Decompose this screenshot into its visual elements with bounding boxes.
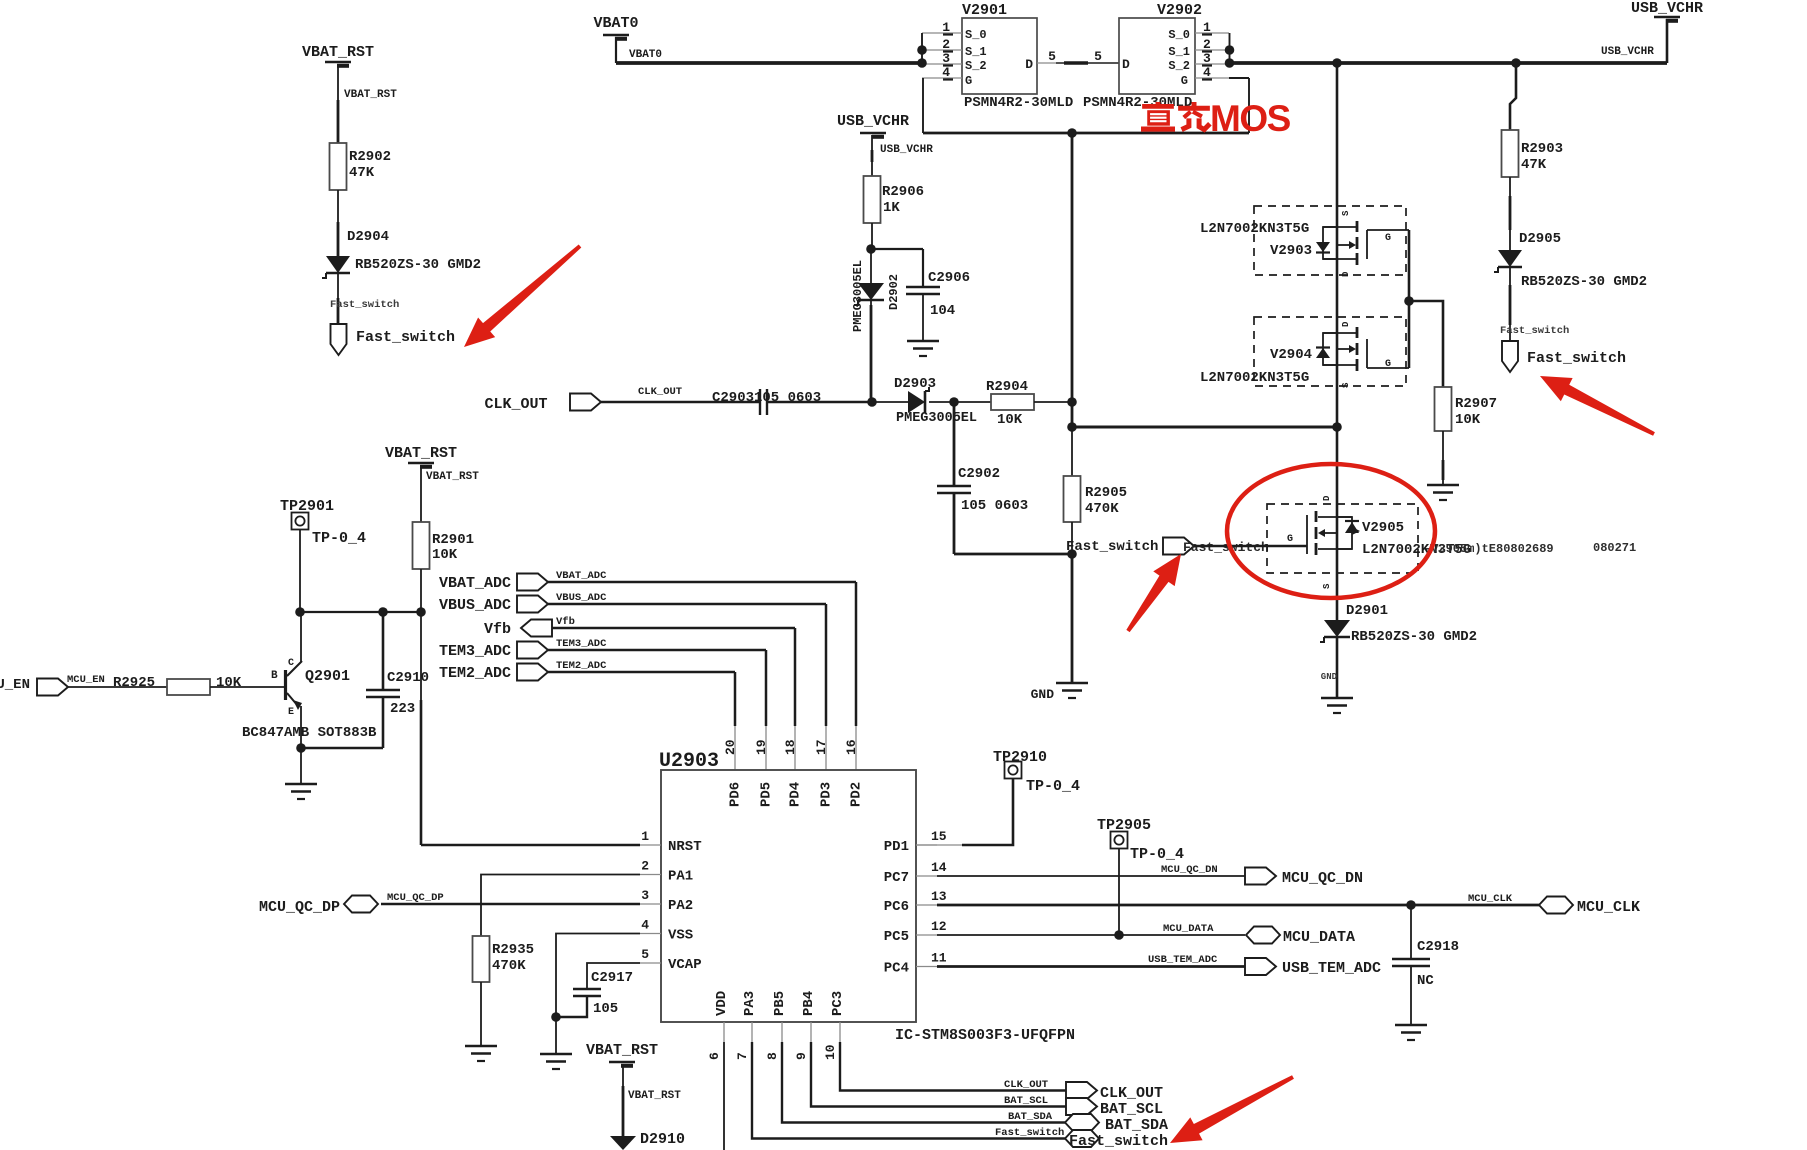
- svg-text:G: G: [1385, 359, 1391, 370]
- svg-text:R2901: R2901: [432, 532, 474, 548]
- svg-text:470K: 470K: [492, 958, 526, 974]
- svg-text:D2902: D2902: [887, 274, 901, 310]
- svg-text:PSMN4R2-30MLD: PSMN4R2-30MLD: [1083, 95, 1192, 111]
- svg-text:D: D: [1341, 271, 1351, 277]
- svg-text:Fast_switch: Fast_switch: [356, 329, 455, 346]
- svg-text:C2903: C2903: [712, 390, 754, 406]
- svg-text:PB5: PB5: [772, 991, 788, 1016]
- svg-text:MCU_DATA: MCU_DATA: [1163, 923, 1214, 935]
- svg-text:CLK_OUT: CLK_OUT: [1004, 1079, 1048, 1091]
- svg-text:MCU_EN: MCU_EN: [67, 674, 105, 686]
- svg-text:VDD: VDD: [714, 991, 730, 1016]
- svg-text:PD6: PD6: [728, 782, 744, 807]
- svg-text:CLK_OUT: CLK_OUT: [1100, 1085, 1163, 1102]
- svg-text:PD2: PD2: [849, 782, 865, 807]
- svg-text:MCU_QC_DP: MCU_QC_DP: [387, 892, 444, 904]
- svg-text:USB_VCHR: USB_VCHR: [1631, 0, 1703, 17]
- svg-text:19: 19: [754, 739, 769, 755]
- svg-text:G: G: [1181, 74, 1188, 88]
- svg-text:4: 4: [1203, 65, 1211, 80]
- svg-text:R2902: R2902: [349, 149, 391, 165]
- svg-text:PMEG3005EL: PMEG3005EL: [851, 260, 865, 332]
- svg-text:CLK_OUT: CLK_OUT: [638, 386, 682, 398]
- svg-text:S_2: S_2: [1168, 59, 1190, 73]
- svg-text:BAT_SDA: BAT_SDA: [1008, 1111, 1053, 1123]
- svg-text:PMEG3005EL: PMEG3005EL: [896, 411, 977, 426]
- svg-text:10K: 10K: [432, 547, 458, 563]
- svg-text:20: 20: [723, 739, 738, 755]
- svg-text:PA3: PA3: [742, 991, 758, 1016]
- svg-text:MCU_CLK: MCU_CLK: [1577, 899, 1640, 916]
- svg-text:Q2901: Q2901: [305, 668, 350, 685]
- svg-text:G: G: [1385, 233, 1391, 244]
- svg-text:PSMN4R2-30MLD: PSMN4R2-30MLD: [964, 95, 1073, 111]
- svg-text:PC3: PC3: [830, 991, 846, 1016]
- svg-text:TP-0_4: TP-0_4: [1130, 846, 1184, 863]
- svg-text:TEM3_ADC: TEM3_ADC: [556, 638, 607, 650]
- svg-text:USB_VCHR: USB_VCHR: [1601, 46, 1654, 58]
- svg-text:CLK_OUT: CLK_OUT: [484, 396, 547, 413]
- svg-text:D: D: [1341, 321, 1351, 327]
- svg-text:TEM2_ADC: TEM2_ADC: [439, 665, 511, 682]
- svg-text:S_2: S_2: [965, 59, 987, 73]
- svg-text:BAT_SCL: BAT_SCL: [1100, 1101, 1163, 1118]
- svg-text:B: B: [271, 670, 278, 682]
- svg-text:Vfb: Vfb: [556, 616, 575, 628]
- svg-text:V2904: V2904: [1270, 347, 1312, 363]
- svg-text:G: G: [1287, 534, 1293, 545]
- svg-text:V2901: V2901: [962, 2, 1007, 19]
- svg-text:S_1: S_1: [965, 45, 987, 59]
- svg-text:8: 8: [765, 1052, 780, 1060]
- svg-text:C2910: C2910: [387, 670, 429, 686]
- svg-text:BAT_SCL: BAT_SCL: [1004, 1095, 1048, 1107]
- svg-text:C2902: C2902: [958, 466, 1000, 482]
- svg-text:-V2905m)tE80802689: -V2905m)tE80802689: [1424, 542, 1554, 556]
- svg-text:3: 3: [1203, 51, 1211, 66]
- svg-text:15: 15: [931, 829, 947, 844]
- svg-text:D2904: D2904: [347, 229, 389, 245]
- svg-text:IC-STM8S003F3-UFQFPN: IC-STM8S003F3-UFQFPN: [895, 1027, 1075, 1044]
- svg-text:2: 2: [1203, 37, 1211, 52]
- svg-text:S_0: S_0: [1168, 28, 1190, 42]
- svg-text:PB4: PB4: [801, 991, 817, 1016]
- svg-text:223: 223: [390, 701, 415, 717]
- svg-text:105 0603: 105 0603: [961, 498, 1028, 514]
- svg-text:C: C: [288, 658, 294, 669]
- svg-text:Fast_switch: Fast_switch: [1183, 540, 1269, 555]
- svg-text:PC5: PC5: [884, 929, 909, 945]
- svg-text:TP-0_4: TP-0_4: [312, 530, 366, 547]
- svg-text:RB520ZS-30 GMD2: RB520ZS-30 GMD2: [1351, 629, 1477, 645]
- svg-text:16: 16: [844, 739, 859, 755]
- svg-text:Fast_switch: Fast_switch: [995, 1127, 1064, 1139]
- svg-text:R2935: R2935: [492, 942, 534, 958]
- svg-text:S_0: S_0: [965, 28, 987, 42]
- svg-text:18: 18: [783, 739, 798, 755]
- svg-text:PA1: PA1: [668, 869, 693, 885]
- svg-text:R2907: R2907: [1455, 396, 1497, 412]
- svg-text:USB_VCHR: USB_VCHR: [880, 144, 933, 156]
- svg-text:104: 104: [930, 303, 955, 319]
- svg-text:2: 2: [641, 859, 649, 874]
- svg-text:MOS: MOS: [1210, 98, 1291, 139]
- svg-text:10K: 10K: [997, 412, 1023, 428]
- svg-text:V2905: V2905: [1362, 520, 1404, 536]
- svg-text:PC6: PC6: [884, 899, 909, 915]
- svg-text:USB_TEM_ADC: USB_TEM_ADC: [1148, 954, 1218, 966]
- svg-text:5: 5: [1094, 49, 1102, 64]
- svg-text:GND: GND: [1031, 687, 1055, 702]
- svg-text:S: S: [1341, 382, 1351, 388]
- svg-text:VBUS_ADC: VBUS_ADC: [556, 592, 607, 604]
- svg-text:V2903: V2903: [1270, 243, 1312, 259]
- svg-text:080271: 080271: [1593, 541, 1636, 555]
- svg-text:VBAT0: VBAT0: [629, 49, 662, 61]
- svg-text:VBAT_RST: VBAT_RST: [344, 89, 397, 101]
- svg-text:S: S: [1341, 210, 1351, 216]
- svg-text:47K: 47K: [349, 165, 375, 181]
- svg-text:1: 1: [641, 829, 649, 844]
- svg-text:Fast_switch: Fast_switch: [330, 299, 399, 311]
- svg-text:GND: GND: [1321, 672, 1338, 682]
- svg-text:MCU_QC_DP: MCU_QC_DP: [259, 899, 340, 916]
- svg-text:D: D: [1122, 57, 1130, 72]
- svg-text:VBAT_RST: VBAT_RST: [628, 1090, 681, 1102]
- svg-text:L2N7002KN3T5G: L2N7002KN3T5G: [1200, 370, 1309, 386]
- svg-text:D2901: D2901: [1346, 603, 1388, 619]
- svg-text:VBAT_RST: VBAT_RST: [586, 1042, 658, 1059]
- svg-text:R2904: R2904: [986, 379, 1028, 395]
- svg-text:9: 9: [794, 1052, 809, 1060]
- svg-text:USB_VCHR: USB_VCHR: [837, 113, 909, 130]
- svg-text:MCU_CLK: MCU_CLK: [1468, 893, 1513, 905]
- svg-text:3: 3: [641, 888, 649, 903]
- svg-text:470K: 470K: [1085, 501, 1119, 517]
- svg-text:5: 5: [1048, 49, 1056, 64]
- svg-text:105 0603: 105 0603: [754, 390, 821, 406]
- svg-text:3: 3: [942, 51, 950, 66]
- svg-text:VSS: VSS: [668, 928, 693, 944]
- svg-text:VBUS_ADC: VBUS_ADC: [439, 597, 511, 614]
- svg-text:S_1: S_1: [1168, 45, 1190, 59]
- svg-text:RB520ZS-30 GMD2: RB520ZS-30 GMD2: [1521, 274, 1647, 290]
- svg-text:VBAT_RST: VBAT_RST: [302, 44, 374, 61]
- svg-text:TEM2_ADC: TEM2_ADC: [556, 660, 607, 672]
- svg-text:BC847AMB SOT883B: BC847AMB SOT883B: [242, 725, 377, 741]
- svg-text:4: 4: [641, 918, 649, 933]
- svg-text:R2906: R2906: [882, 184, 924, 200]
- svg-text:PD1: PD1: [884, 839, 909, 855]
- svg-text:G: G: [965, 74, 972, 88]
- svg-text:D: D: [1025, 57, 1033, 72]
- svg-text:NRST: NRST: [668, 839, 702, 855]
- svg-text:Fast_switch: Fast_switch: [1527, 350, 1626, 367]
- svg-text:PC4: PC4: [884, 961, 909, 977]
- svg-text:PD4: PD4: [788, 782, 804, 807]
- svg-text:10K: 10K: [216, 675, 242, 691]
- svg-text:S: S: [1322, 583, 1332, 589]
- svg-text:RB520ZS-30 GMD2: RB520ZS-30 GMD2: [355, 257, 481, 273]
- svg-text:14: 14: [931, 860, 947, 875]
- svg-text:TP-0_4: TP-0_4: [1026, 778, 1080, 795]
- svg-text:BAT_SDA: BAT_SDA: [1105, 1117, 1168, 1134]
- svg-text:Fast_switch: Fast_switch: [1069, 1133, 1168, 1150]
- svg-text:47K: 47K: [1521, 157, 1547, 173]
- svg-text:E: E: [288, 707, 294, 718]
- svg-text:VCAP: VCAP: [668, 957, 702, 973]
- svg-text:C2906: C2906: [928, 270, 970, 286]
- svg-text:L2N7002KN3T5G: L2N7002KN3T5G: [1200, 221, 1309, 237]
- svg-text:PA2: PA2: [668, 898, 693, 914]
- svg-text:PD3: PD3: [819, 782, 835, 807]
- svg-text:10K: 10K: [1455, 412, 1481, 428]
- svg-text:12: 12: [931, 919, 947, 934]
- svg-text:NC: NC: [1417, 973, 1434, 989]
- svg-text:2: 2: [942, 37, 950, 52]
- svg-text:7: 7: [735, 1052, 750, 1060]
- svg-text:1: 1: [1203, 20, 1211, 35]
- svg-text:D2905: D2905: [1519, 231, 1561, 247]
- svg-text:D2910: D2910: [640, 1131, 685, 1148]
- svg-text:MCU_QC_DN: MCU_QC_DN: [1161, 864, 1218, 876]
- svg-text:Vfb: Vfb: [484, 621, 511, 638]
- svg-text:10: 10: [823, 1044, 838, 1060]
- svg-text:11: 11: [931, 951, 947, 966]
- svg-text:D: D: [1322, 495, 1332, 501]
- svg-text:4: 4: [942, 65, 950, 80]
- svg-text:1K: 1K: [883, 200, 900, 216]
- svg-text:VBAT_ADC: VBAT_ADC: [439, 575, 511, 592]
- svg-text:1: 1: [942, 20, 950, 35]
- svg-text:VBAT_RST: VBAT_RST: [385, 445, 457, 462]
- svg-text:5: 5: [641, 947, 649, 962]
- svg-text:MCU_DATA: MCU_DATA: [1283, 929, 1355, 946]
- svg-text:TEM3_ADC: TEM3_ADC: [439, 643, 511, 660]
- svg-text:C2918: C2918: [1417, 939, 1459, 955]
- svg-text:C2917: C2917: [591, 970, 633, 986]
- svg-text:Fast_switch: Fast_switch: [1500, 325, 1569, 337]
- svg-text:R2903: R2903: [1521, 141, 1563, 157]
- svg-text:105: 105: [593, 1001, 618, 1017]
- svg-text:PD5: PD5: [759, 782, 775, 807]
- svg-text:VBAT_ADC: VBAT_ADC: [556, 570, 607, 582]
- svg-text:13: 13: [931, 889, 947, 904]
- svg-text:17: 17: [814, 739, 829, 755]
- svg-text:Fast_switch: Fast_switch: [1066, 539, 1158, 555]
- svg-text:VBAT0: VBAT0: [593, 15, 638, 32]
- svg-text:R2925: R2925: [113, 675, 155, 691]
- svg-text:MCU_EN: MCU_EN: [0, 677, 30, 693]
- svg-text:6: 6: [707, 1052, 722, 1060]
- svg-text:U2903: U2903: [659, 750, 719, 773]
- svg-text:PC7: PC7: [884, 870, 909, 886]
- svg-text:V2902: V2902: [1157, 2, 1202, 19]
- svg-text:USB_TEM_ADC: USB_TEM_ADC: [1282, 960, 1381, 977]
- svg-text:VBAT_RST: VBAT_RST: [426, 471, 479, 483]
- svg-text:MCU_QC_DN: MCU_QC_DN: [1282, 870, 1363, 887]
- svg-text:R2905: R2905: [1085, 485, 1127, 501]
